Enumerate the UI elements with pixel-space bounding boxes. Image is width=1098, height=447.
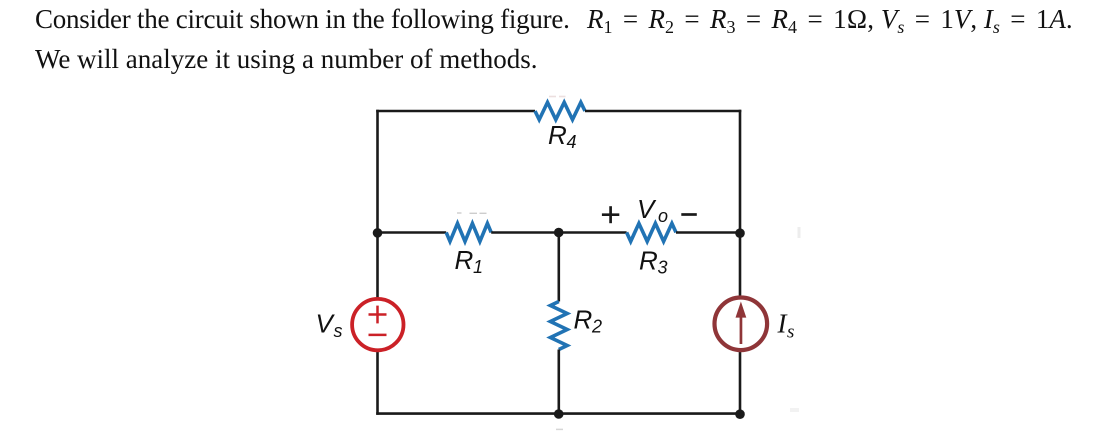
junction node bottom-right [735, 409, 745, 419]
title line 1 text [35, 6, 570, 33]
wire: right vertical lower [739, 351, 742, 415]
wire: top-right horizontal segment [585, 110, 741, 113]
wire: bottom horizontal [376, 412, 741, 415]
wire: top-left horizontal segment [376, 110, 535, 113]
junction node bottom-center [554, 409, 564, 419]
junction node left-middle [373, 228, 383, 238]
faint smudge right edge upper [798, 227, 801, 238]
faint dashes above R4 [549, 96, 566, 98]
svg-text:1: 1 [473, 257, 483, 277]
minus sign inside Vs [369, 334, 387, 337]
wire: left vertical lower [376, 351, 379, 415]
svg-text:R: R [455, 245, 474, 275]
svg-text:3: 3 [658, 258, 668, 278]
wire: middle horizontal left of R1 [378, 231, 447, 234]
wire: middle vertical below R2 [557, 350, 560, 414]
resistor R4 [535, 102, 585, 119]
title line 1 math [587, 6, 1073, 33]
arrow inside Is [736, 302, 747, 345]
wire: middle horizontal right of R3 [676, 231, 740, 234]
faint dash below bottom-center node [556, 428, 563, 430]
plus sign inside Vs [369, 306, 387, 324]
junction node right-middle [735, 228, 745, 238]
wire: middle horizontal between R1 and R3 [491, 231, 626, 234]
svg-text:4: 4 [567, 132, 577, 152]
current source Is circle [715, 298, 768, 351]
svg-text:V: V [316, 309, 336, 339]
svg-text:R: R [548, 120, 567, 150]
wire: left vertical upper [376, 110, 379, 298]
faint dashes above R1 [457, 212, 487, 214]
faint smudge right edge lower [790, 408, 799, 412]
plus sign of Vo polarity [602, 206, 619, 223]
resistor R2 [550, 302, 567, 350]
svg-text:V: V [637, 194, 657, 224]
minus sign of Vo polarity [681, 213, 697, 216]
junction node center-middle [554, 228, 564, 238]
resistor R1 [446, 223, 491, 241]
svg-text:R: R [639, 246, 658, 276]
resistor R3 [627, 223, 676, 241]
svg-text:R: R [574, 304, 593, 334]
title line 2 text [35, 46, 537, 73]
wire: right vertical upper [739, 110, 742, 297]
voltage source Vs circle [352, 299, 403, 350]
svg-text:s: s [787, 322, 794, 343]
svg-text:o: o [658, 206, 668, 226]
svg-text:s: s [334, 321, 343, 341]
wire: middle vertical above R2 [557, 233, 560, 302]
svg-text:2: 2 [591, 316, 602, 336]
